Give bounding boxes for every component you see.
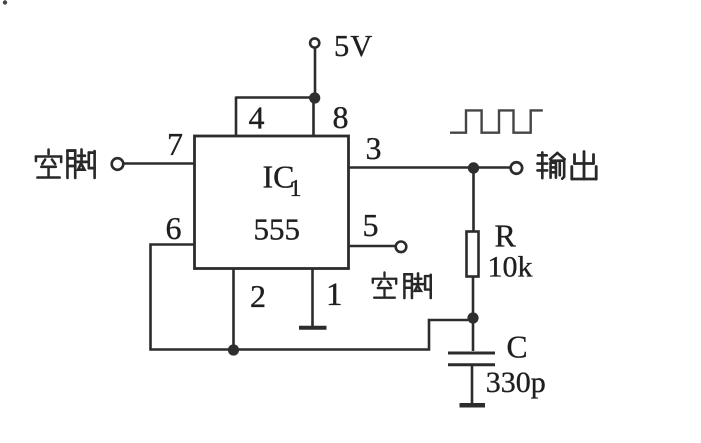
svg-text:8: 8 — [333, 99, 349, 135]
svg-text:2: 2 — [250, 278, 266, 314]
svg-text:1: 1 — [290, 176, 302, 202]
svg-text:10k: 10k — [488, 251, 533, 284]
svg-text:555: 555 — [254, 212, 301, 247]
svg-text:330p: 330p — [486, 366, 546, 399]
svg-text:5: 5 — [363, 207, 379, 243]
svg-text:R: R — [495, 218, 517, 254]
svg-text:7: 7 — [167, 126, 183, 162]
svg-text:5V: 5V — [334, 29, 373, 63]
svg-text:C: C — [507, 330, 528, 365]
svg-text:6: 6 — [166, 210, 182, 246]
svg-text:3: 3 — [366, 130, 382, 166]
svg-text:4: 4 — [249, 100, 265, 136]
svg-text:1: 1 — [326, 277, 343, 313]
